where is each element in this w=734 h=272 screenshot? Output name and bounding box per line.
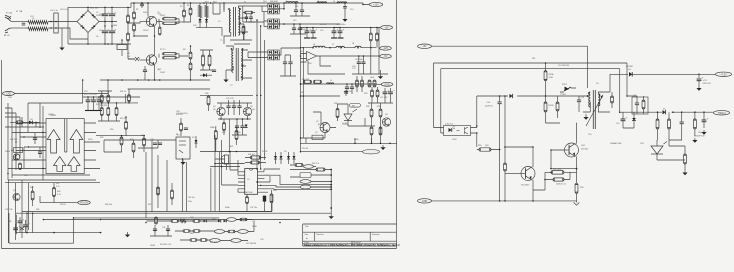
capacitor C31 [226, 106, 230, 108]
wire +5V rail [300, 28, 380, 32]
wire oval1 lead [363, 3, 369, 5]
wire T1 sec top lead [238, 6, 262, 8]
junction aux [82, 79, 145, 136]
resistor R21 [314, 80, 322, 83]
junction rail2 [329, 47, 371, 49]
svg-text:SBL3040: SBL3040 [270, 1, 278, 3]
resistor R29a [107, 95, 110, 102]
svg-text:C14: C14 [616, 123, 619, 125]
wire aux rail top [83, 97, 140, 103]
wire bias vert [22, 117, 36, 127]
svg-text:250v: 250v [188, 201, 192, 203]
inductor L1B common-mode choke lower [28, 27, 48, 31]
wire R57 drop [694, 112, 696, 136]
wire snubber RC [200, 3, 220, 19]
transformer T50 dots [588, 92, 600, 96]
ground bars aux caps [85, 110, 91, 112]
component box misc [300, 173, 311, 178]
wire bl vert rails [8, 180, 28, 243]
svg-text:GND: GND [370, 77, 375, 79]
junction Q51 c [504, 146, 506, 148]
inductor L1A common-mode choke upper [28, 21, 48, 25]
wire cmp net 2 [8, 103, 43, 180]
capacitor C1 X-cap [22, 23, 26, 25]
resistor R19b [376, 33, 379, 41]
transformer T50 arrow [586, 95, 603, 126]
junction bottom rail [499, 200, 534, 202]
wire U1 pins right [258, 172, 264, 192]
diode D15 output rectifier pair [268, 50, 279, 54]
svg-text:C8: C8 [127, 53, 129, 55]
resistor R47 zig strip [180, 220, 186, 223]
resistor R53 strip [193, 230, 200, 233]
capacitor C35 [240, 126, 244, 128]
svg-text:1446UF 10V: 1446UF 10V [694, 136, 705, 138]
wire cluster links [290, 165, 331, 177]
resistor R4 [163, 22, 177, 24]
svg-text:R3 2.2: R3 2.2 [164, 17, 170, 19]
wire rect pair3 in [248, 52, 268, 58]
svg-text:CX2 0.1u: CX2 0.1u [60, 9, 68, 11]
resistor C12 cap body [553, 178, 564, 181]
resistor R14b [208, 55, 211, 66]
resistor R11 [127, 15, 130, 23]
capacitor C27 [38, 152, 42, 154]
connector +12V output [369, 2, 383, 6]
connector +7.5VDC [715, 72, 731, 76]
wire fb bus top [100, 102, 138, 104]
wire choke to X2 cap upper [48, 21, 77, 23]
component C37 dark [263, 196, 266, 202]
diode D14 [293, 156, 296, 159]
wire sec filter rail 1 [284, 3, 340, 9]
wire subbox verts [167, 158, 211, 212]
svg-text:GND: GND [422, 200, 428, 203]
resistor R57 [693, 119, 696, 129]
svg-text:R36: R36 [205, 93, 208, 95]
resistor R19a [369, 33, 372, 41]
svg-text:C31 C32: C31 C32 [226, 98, 233, 100]
svg-text:R62: R62 [56, 183, 59, 185]
connector -12V output [380, 46, 392, 50]
shunt regulator U51 [651, 142, 667, 155]
svg-text:R14: R14 [213, 2, 216, 4]
resistor R35c [235, 131, 238, 140]
inductor L8 [327, 83, 334, 84]
svg-text:T1: T1 [244, 2, 246, 4]
inductor L3 [317, 2, 327, 3]
svg-text:R42b: R42b [354, 139, 359, 141]
wire Q51 collector [505, 147, 533, 167]
wire choke to X2 cap lower [48, 27, 58, 29]
svg-text:+5V: +5V [384, 27, 389, 30]
svg-text:1n5: 1n5 [127, 56, 130, 58]
svg-text:R9: R9 [183, 49, 185, 51]
connector pin oval 1 [300, 180, 311, 184]
resistor R59 [668, 119, 671, 129]
connector GND right block [418, 199, 432, 203]
connector pin oval 2 [300, 185, 311, 189]
wire C14b leads [623, 112, 634, 128]
wire -12V rail [300, 47, 376, 49]
svg-text:C16 1000u: C16 1000u [336, 24, 345, 26]
ground K1 [180, 159, 185, 165]
resistor R5 [183, 10, 186, 17]
svg-text:1 www.softelectro.ru © 2009 S: 1 www.softelectro.ru © 2009 SoftElectro … [304, 244, 401, 247]
wire sense rail [300, 83, 377, 85]
resistor R56 [642, 100, 645, 109]
ground y143 [380, 145, 385, 150]
connector strip oval E [238, 230, 248, 234]
ground bars C16 [331, 37, 337, 39]
resistor R23b [361, 80, 364, 87]
inductor L2 [286, 2, 298, 4]
svg-text:+7.5V: +7.5V [720, 73, 727, 76]
thermistor RT1 [117, 45, 127, 50]
small label box FB [350, 104, 361, 108]
capacitor C30 [184, 128, 188, 130]
capacitor C25 [97, 97, 104, 101]
wire strip links b [175, 222, 254, 232]
resistor R50b [504, 163, 507, 171]
capacitor C2 X2 box [54, 13, 58, 33]
svg-text:20k/10k C12: 20k/10k C12 [556, 184, 566, 186]
wire C13 drop [578, 96, 580, 112]
svg-text:R40: R40 [377, 106, 380, 108]
capacitor C9b [245, 17, 249, 19]
wire rect pair1 out [279, 6, 284, 12]
wire vin run [432, 46, 588, 88]
svg-text:120R: 120R [549, 77, 554, 79]
svg-text:R66 10k: R66 10k [105, 204, 112, 206]
wire remote run [300, 151, 360, 153]
bridge BD1 diodes [80, 14, 95, 29]
wire feedback mesh [104, 136, 176, 162]
resistor R56b strip [200, 239, 207, 242]
wire main B+ top rail [131, 3, 340, 7]
resistor R49b strip [240, 218, 247, 221]
ground C54 [701, 130, 706, 135]
svg-text:CX 0.1u: CX 0.1u [50, 10, 59, 12]
svg-text:Revision: Revision [372, 234, 380, 236]
wire cmp net 3 [5, 108, 20, 117]
svg-text:C36: C36 [300, 92, 303, 94]
junction bias [35, 122, 41, 128]
resistor R16 [242, 26, 245, 34]
transistor Q7 [320, 123, 330, 133]
resistor R30 [115, 108, 118, 116]
svg-text:D21: D21 [252, 221, 255, 223]
zener ZD51 [632, 118, 636, 121]
junction R52A [499, 149, 501, 151]
svg-text:470F 16V: 470F 16V [703, 83, 712, 85]
capacitor C12a [294, 10, 298, 12]
resistor R6 [189, 8, 192, 15]
junction AC filter nodes [50, 21, 57, 29]
wire U1 pins left [238, 172, 245, 192]
svg-text:R60 R61 C44: R60 R61 C44 [160, 244, 171, 246]
wire base network to aux [175, 21, 182, 23]
wire R19 drops [371, 28, 377, 48]
resistor R35 [180, 123, 183, 131]
wire T1 primary bottom lead [224, 32, 231, 44]
svg-text:R70 R71: R70 R71 [210, 242, 217, 244]
svg-text:+5V: +5V [422, 45, 427, 48]
junction right block [476, 62, 628, 180]
diode D22 [224, 220, 227, 223]
resistor R42 [251, 161, 260, 164]
resistor R25 [376, 90, 379, 97]
junction IC right [256, 168, 261, 186]
wire U51 leads [657, 140, 685, 160]
ground transformer aux [223, 77, 228, 82]
junction mid rails [300, 55, 376, 152]
svg-text:R20 R21: R20 R21 [302, 79, 309, 81]
bridge rectifier BD1 diamond [77, 11, 99, 33]
wire R51 chain [546, 63, 561, 123]
junction bus nodes [107, 79, 191, 81]
wire earth stub [61, 28, 63, 44]
resistor R60 [684, 154, 687, 164]
junction bulk mid [104, 21, 113, 23]
svg-text:GND1: GND1 [150, 245, 155, 247]
transformer T2 secondary winding 2 [241, 66, 242, 80]
svg-text:C21 C22: C21 C22 [380, 97, 387, 99]
svg-text:R6: R6 [187, 5, 189, 7]
wire cmp net 1 [28, 102, 83, 104]
svg-text:R31 1k: R31 1k [120, 91, 126, 93]
wire rect pair2 out [279, 21, 284, 27]
transformer T2 core [235, 48, 237, 81]
page border right [396, 0, 398, 249]
resistor R43 [270, 194, 273, 203]
capacitor C44 [288, 62, 292, 64]
capacitor C14 [343, 7, 347, 9]
svg-text:TL431: TL431 [342, 123, 347, 125]
svg-text:R67: R67 [148, 204, 151, 206]
svg-text:MC2837: MC2837 [626, 66, 633, 68]
transformer T1 core [233, 7, 235, 37]
svg-text:7C5B1: 7C5B1 [560, 94, 566, 96]
wire Q51 base [505, 173, 521, 175]
wire C34 drops [232, 119, 247, 135]
svg-text:R18: R18 [308, 63, 311, 65]
diode D52 [510, 94, 513, 98]
svg-text:R7 2.2: R7 2.2 [160, 49, 166, 51]
wire D1 link [128, 58, 140, 60]
svg-text:R49 1.7k: R49 1.7k [312, 163, 319, 165]
wire thermistor feed [121, 40, 123, 56]
capacitor C9c [249, 17, 253, 19]
svg-text:L9: L9 [330, 80, 332, 82]
diode D21 [218, 220, 221, 223]
wire filter caps 1 [290, 3, 310, 16]
svg-text:C19 C20: C19 C20 [344, 91, 351, 93]
wire R26 lead [10, 121, 24, 123]
svg-text:Q9: Q9 [13, 190, 16, 192]
transformer T50 right winding [598, 94, 600, 106]
capacitor C32 [232, 106, 236, 108]
wire bulk rail top [88, 6, 131, 8]
wire y112 rail [620, 108, 713, 112]
resistor R44 [31, 191, 34, 200]
wire pin collector [330, 170, 332, 215]
resistor R51B [544, 102, 547, 112]
transformer T2 primary winding [232, 50, 233, 72]
junction y96 [499, 95, 588, 97]
svg-text:C48 10n: C48 10n [188, 197, 195, 199]
capacitor C13 [577, 100, 581, 102]
resistor R53A [551, 171, 564, 175]
svg-text:D7 D8: D7 D8 [262, 151, 267, 153]
transformer T1 phase dots [228, 8, 241, 24]
capacitor C22 [388, 89, 395, 93]
wire D4 row [24, 121, 40, 123]
wire vert drops outputs [371, 28, 379, 75]
wire T50 right leads [598, 92, 610, 112]
capacitor C52 inner [635, 103, 639, 105]
wire Q2 emitter [154, 65, 156, 80]
wire fb right bus [300, 90, 346, 96]
svg-text:BD1 4A: BD1 4A [90, 7, 98, 10]
wire zener leads [560, 88, 576, 92]
diode D5 [195, 140, 198, 143]
svg-text:4.7k: 4.7k [57, 194, 61, 196]
svg-text:R32: R32 [100, 137, 103, 139]
capacitor C36 [344, 92, 348, 94]
svg-text:L3: L3 [317, 1, 319, 3]
svg-text:CN2: CN2 [8, 97, 12, 99]
connector VIN right block [418, 44, 432, 48]
wire Q7 mesh [300, 112, 336, 138]
wire pin ovals leads [311, 182, 331, 188]
wire C12 leads [545, 172, 570, 179]
capacitor C34 [235, 126, 239, 128]
svg-text:GND: GND [384, 83, 390, 86]
capacitor C14b [621, 116, 628, 120]
resistor R54 [575, 183, 578, 193]
svg-text:D12: D12 [293, 20, 296, 22]
resistor R31 [128, 95, 131, 102]
piezo BZ1 [222, 155, 229, 164]
junction y143 [354, 143, 391, 145]
svg-text:AC IN: AC IN [4, 34, 10, 37]
svg-text:D5: D5 [192, 137, 194, 139]
small box PS-ON [312, 135, 323, 139]
resistor R27 [19, 163, 22, 170]
wire R11 R12 chain [128, 7, 140, 59]
capacitor C17 [357, 62, 361, 64]
wire C19 C20 drops [347, 84, 352, 94]
resistor R38 [336, 109, 339, 118]
resistor R36 [207, 96, 210, 105]
ground T50 [583, 114, 588, 120]
svg-text:R28 R29: R28 R29 [100, 105, 107, 107]
svg-text:D10: D10 [263, 1, 266, 3]
IC U1 box [245, 169, 258, 195]
wire Q51 emitter to rail [532, 190, 534, 201]
svg-text:R34: R34 [141, 135, 144, 137]
op-amp comparator U2D [68, 157, 80, 172]
svg-text:R63: R63 [30, 187, 33, 189]
svg-text:C12: C12 [295, 6, 298, 8]
connector +5V output [381, 25, 393, 29]
svg-text:C10 202/1KV: C10 202/1KV [558, 65, 570, 67]
wire T50 up to D4 [610, 74, 628, 92]
svg-text:VCC C23 C24: VCC C23 C24 [84, 94, 98, 96]
svg-text:Q8: Q8 [385, 114, 388, 116]
diode D12 output rectifier pair [268, 19, 279, 23]
title block outline [303, 224, 397, 246]
svg-text:F1 2A: F1 2A [6, 12, 12, 15]
wire AC line upper [11, 21, 22, 23]
wire C26 C27 [35, 133, 40, 158]
zener ZD50 [564, 87, 571, 92]
resistor R29 [107, 108, 110, 116]
wire loop B [434, 63, 628, 124]
resistor R14 zigzag [205, 6, 208, 18]
wire pin run short [264, 169, 280, 192]
svg-text:R41 4k7: R41 4k7 [248, 154, 255, 156]
junction output rails [300, 2, 378, 48]
wire C15 gnds [307, 33, 313, 38]
wire B+ drop to transformer [223, 3, 225, 10]
svg-text:47n/250: 47n/250 [176, 114, 183, 116]
resistor R37 [223, 123, 226, 131]
svg-text:R60 R61: R60 R61 [10, 139, 17, 141]
svg-text:CN2: CN2 [6, 93, 11, 96]
svg-text:PS-ON: PS-ON [302, 148, 309, 150]
wire rect pair3 out [279, 48, 300, 58]
wire ZD51 leads [633, 112, 635, 128]
wire C54 drop [703, 112, 705, 128]
capacitor C54 [702, 117, 709, 121]
transistor Q3 [13, 154, 19, 160]
svg-text:R44b: R44b [225, 207, 230, 209]
transformer T2 phase dots [231, 48, 244, 66]
resistor R50c [611, 96, 614, 103]
wire feeder x303.3 [302, 48, 304, 138]
junction sec filters [283, 2, 303, 25]
svg-text:R68: R68 [212, 219, 215, 221]
wire sense rail B [260, 26, 262, 169]
wire bulk cap column 1 [104, 7, 106, 44]
resistor R26 [16, 121, 23, 124]
capacitor C38 [18, 218, 25, 222]
wire R33 leads [133, 140, 135, 158]
transistor Q9 [13, 193, 20, 200]
capacitor C10 [143, 70, 147, 72]
wire pin run 1 [264, 175, 331, 184]
junction ic area [214, 95, 261, 168]
wire right col drops [368, 87, 393, 103]
wire R35 link [180, 118, 182, 136]
svg-text:L6: L6 [313, 44, 315, 46]
capacitor C15b [311, 28, 318, 32]
svg-text:R50 1k: R50 1k [120, 118, 126, 120]
wire mid top bus [200, 94, 253, 96]
wire vert long drops [146, 155, 158, 218]
svg-text:Q2: Q2 [157, 69, 160, 71]
svg-text:L8: L8 [352, 43, 354, 45]
svg-text:220u: 220u [99, 30, 103, 32]
capacitor C19 [345, 87, 349, 89]
wire R59 drop [668, 112, 670, 140]
svg-text:330k: 330k [143, 12, 147, 14]
wire aux gnd [225, 70, 227, 77]
resistor R12 [127, 33, 130, 41]
svg-text:THD(A): THD(A) [717, 112, 725, 115]
